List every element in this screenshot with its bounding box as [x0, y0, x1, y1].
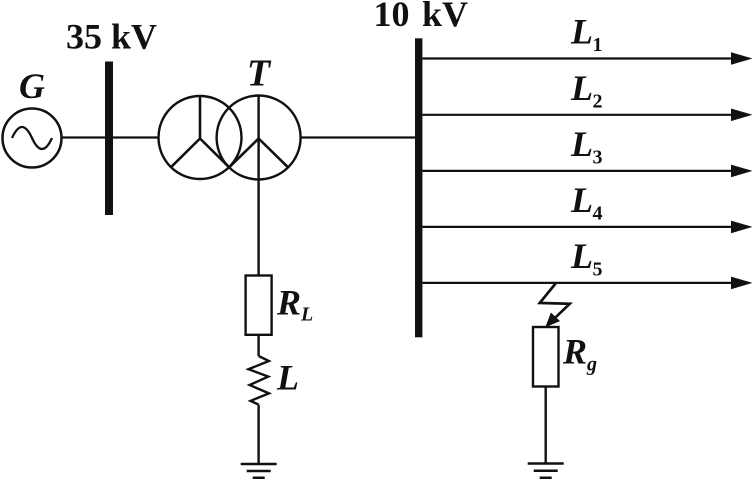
- ground left: [241, 464, 277, 478]
- svg-text:R: R: [562, 332, 587, 372]
- svg-text:5: 5: [593, 258, 603, 280]
- svg-text:L: L: [570, 12, 593, 52]
- wire 35kV bus to transformer: [113, 136, 159, 138]
- bus 35 kV: [105, 62, 113, 216]
- generator G circle: [3, 109, 62, 168]
- feeder line L4: [422, 226, 736, 228]
- svg-text:G: G: [19, 66, 45, 106]
- arrowhead L2: [731, 109, 753, 122]
- wire R_L to L: [257, 335, 259, 356]
- transformer T primary circle: [159, 96, 242, 179]
- fault lightning arrow: [540, 283, 570, 322]
- feeder line L5: [422, 282, 736, 284]
- svg-text:1: 1: [593, 34, 603, 56]
- ground right: [528, 464, 564, 478]
- svg-text:L: L: [570, 236, 593, 276]
- svg-text:4: 4: [593, 202, 603, 224]
- wire L to ground: [257, 405, 259, 464]
- wire R_g to ground: [545, 387, 547, 464]
- svg-text:L: L: [276, 358, 299, 398]
- generator sine symbol: [12, 127, 52, 149]
- feeder line L1: [422, 57, 736, 59]
- wye symbol primary: [171, 97, 230, 168]
- svg-text:T: T: [247, 53, 272, 95]
- svg-text:L: L: [300, 304, 313, 326]
- svg-text:kV: kV: [111, 17, 157, 57]
- svg-text:35: 35: [66, 17, 102, 57]
- arrowhead L4: [731, 221, 753, 234]
- svg-text:R: R: [276, 283, 301, 323]
- resistor R_L: [246, 276, 272, 335]
- svg-text:2: 2: [593, 90, 603, 112]
- inductor L zigzag: [249, 356, 270, 405]
- neutral wire down from transformer: [257, 96, 259, 276]
- svg-text:g: g: [586, 354, 597, 376]
- svg-text:L: L: [570, 124, 593, 164]
- arrowhead L5: [731, 277, 753, 290]
- bus 10 kV: [415, 38, 422, 337]
- svg-text:3: 3: [593, 146, 603, 168]
- transformer T secondary circle: [217, 96, 301, 180]
- svg-text:L: L: [570, 68, 593, 108]
- arrowhead L1: [731, 52, 753, 65]
- arrowhead L3: [731, 165, 753, 178]
- feeder line L2: [422, 114, 736, 116]
- svg-text:L: L: [570, 180, 593, 220]
- resistor R_g: [533, 327, 559, 387]
- svg-text:10: 10: [374, 0, 410, 34]
- fault arrowhead: [545, 313, 560, 328]
- wye symbol secondary: [229, 139, 288, 168]
- wire G to 35kV bus: [62, 136, 106, 138]
- wire transformer to 10kV bus: [301, 136, 415, 138]
- svg-text:kV: kV: [422, 0, 468, 34]
- feeder line L3: [422, 170, 736, 172]
